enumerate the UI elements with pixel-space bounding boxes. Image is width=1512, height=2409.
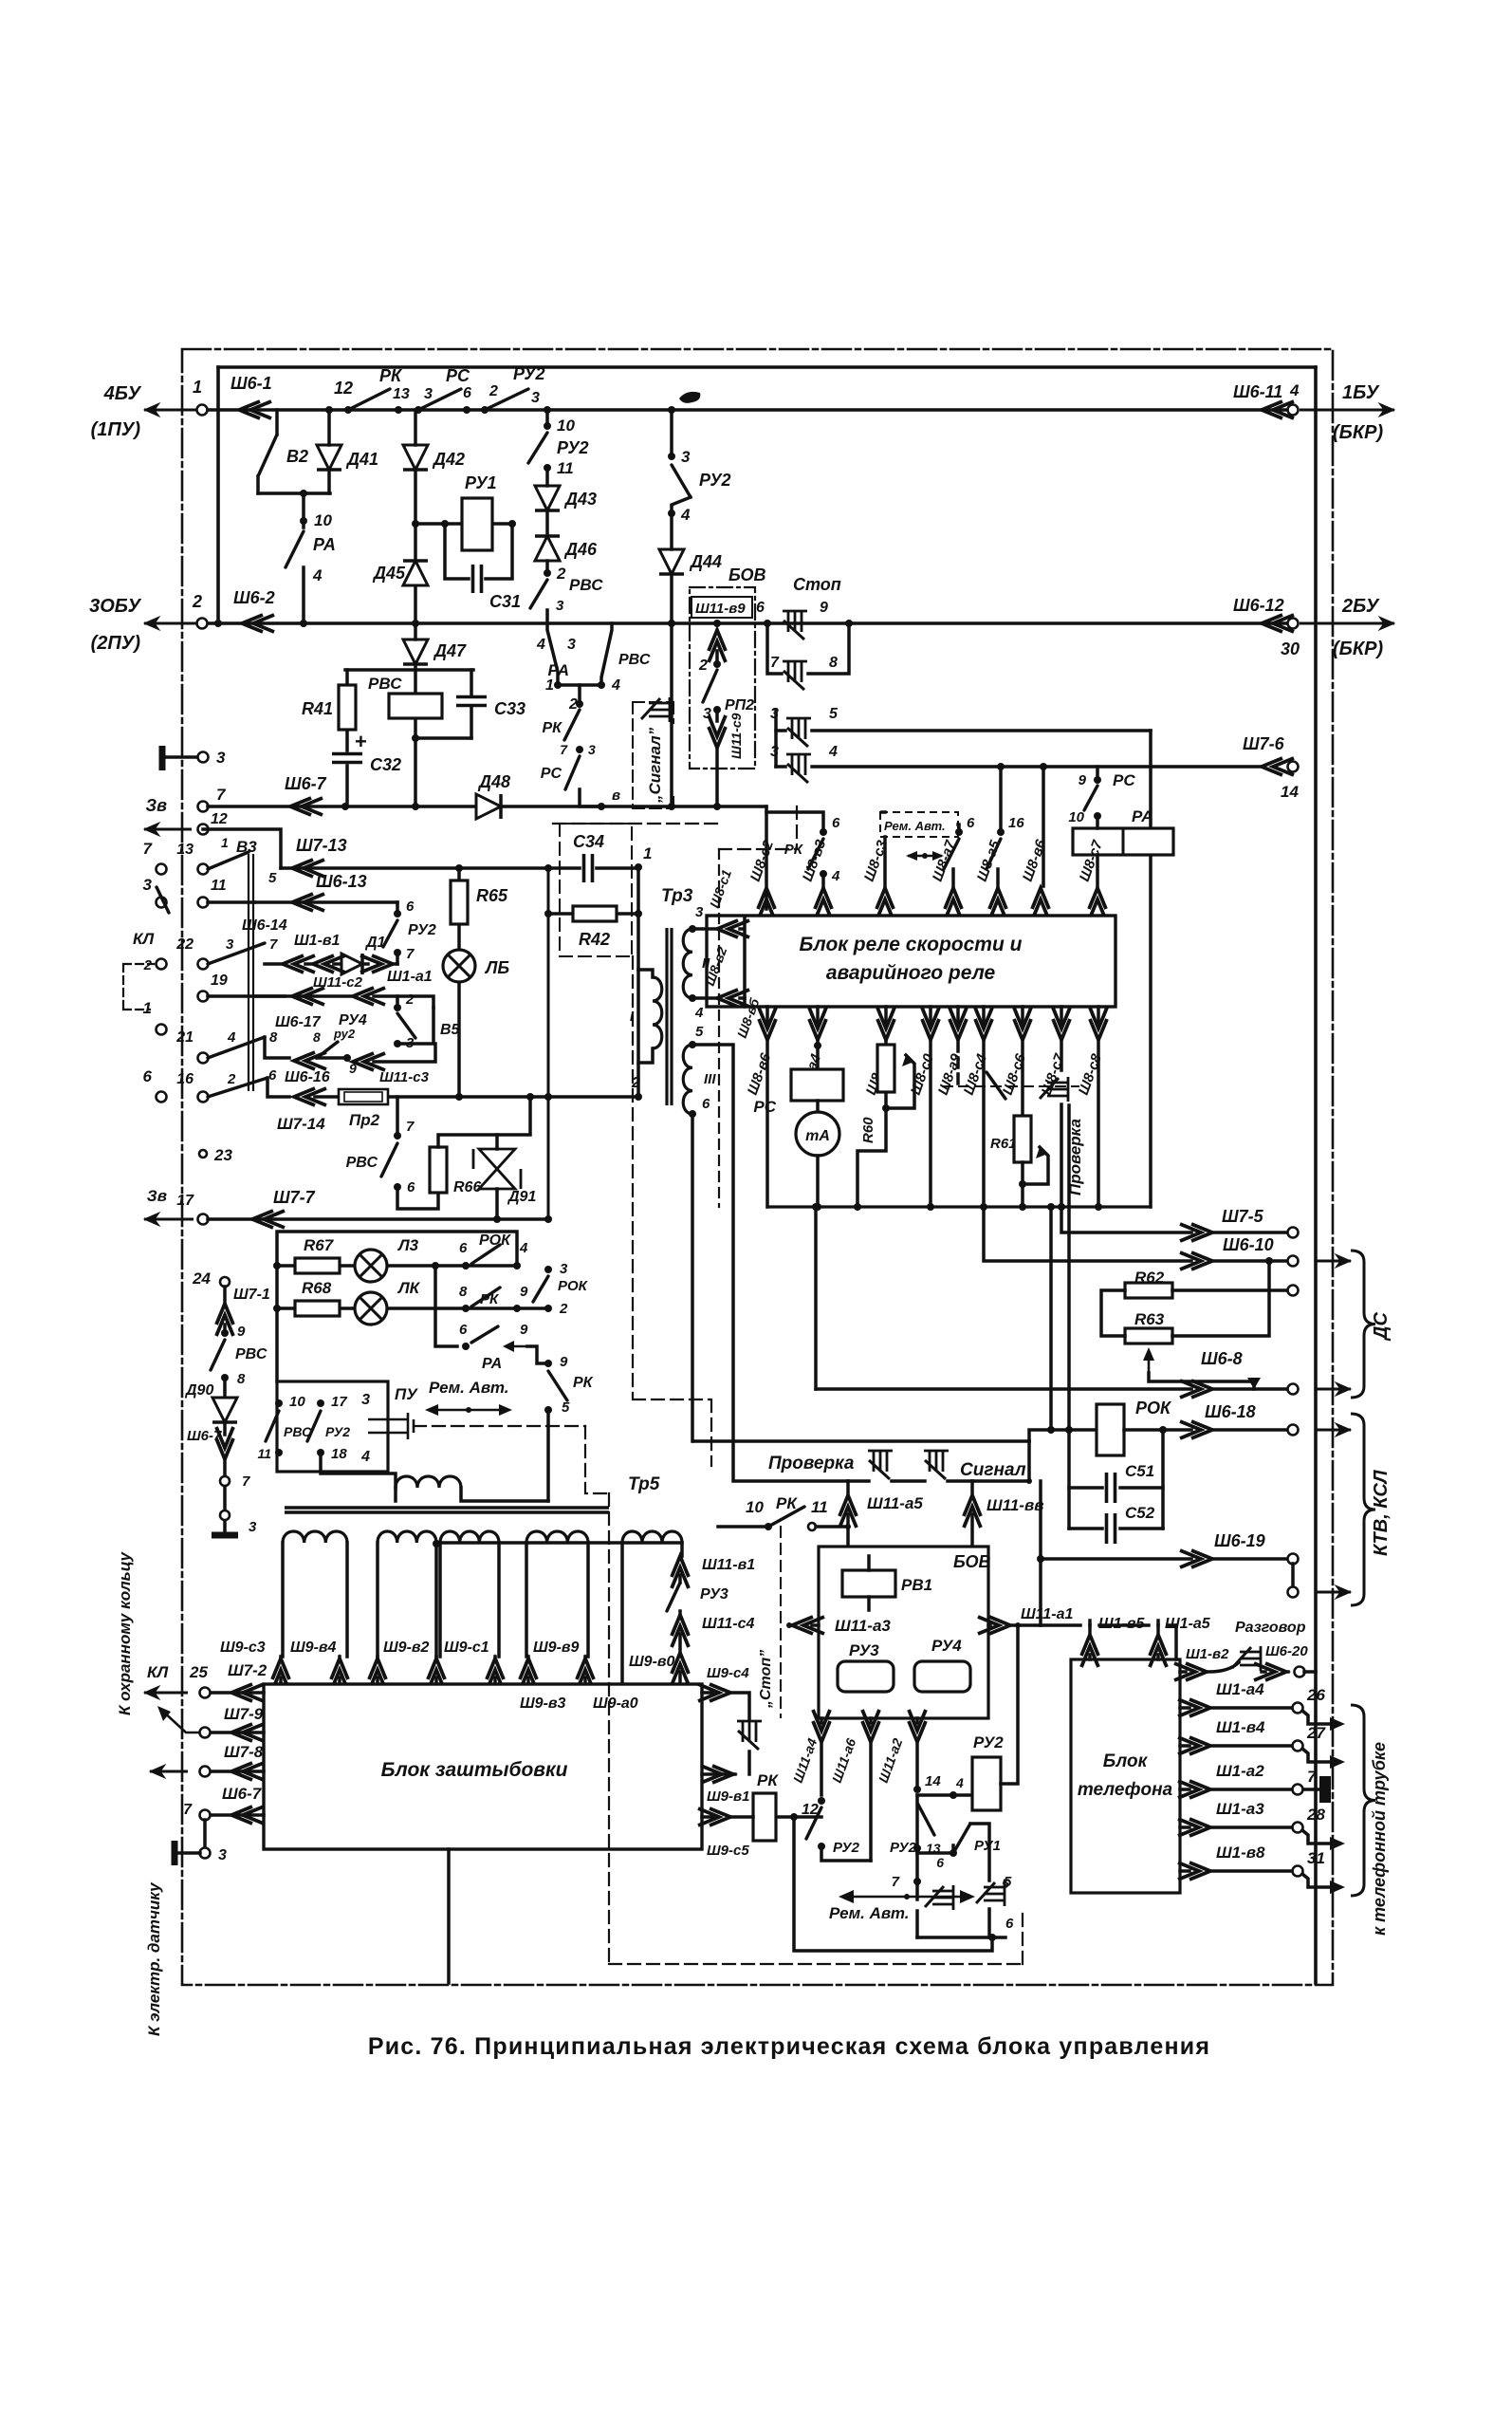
diode Д46 — [535, 536, 560, 561]
wire — [1149, 731, 1152, 1207]
junction — [668, 620, 675, 627]
svg-text:Ш9-с5: Ш9-с5 — [707, 1843, 749, 1859]
connector Ш6-11 — [1262, 401, 1294, 418]
svg-text:РУ2: РУ2 — [408, 922, 436, 938]
push-button Проверка — [1040, 1077, 1068, 1102]
junction — [300, 490, 307, 497]
junction — [1015, 1622, 1021, 1628]
dashed Стоп line — [780, 1527, 782, 1717]
wire — [258, 491, 330, 495]
terminal — [1295, 1667, 1305, 1677]
connector Ш11-а5 — [839, 1495, 857, 1528]
wire — [345, 670, 349, 750]
svg-text:Ш11-в9: Ш11-в9 — [695, 601, 746, 617]
svg-text:РУ4: РУ4 — [931, 1637, 962, 1655]
svg-text:Ш9-в4: Ш9-в4 — [290, 1640, 337, 1656]
switch РА — [286, 531, 304, 567]
svg-text:Ш6-11: Ш6-11 — [1233, 382, 1282, 401]
svg-text:Зв: Зв — [147, 1187, 167, 1205]
svg-text:С31: С31 — [489, 592, 521, 611]
svg-text:Ш11-с9: Ш11-с9 — [728, 713, 744, 759]
connector — [520, 1659, 537, 1691]
connector Ш8-а5 — [989, 888, 1006, 920]
wire winding 2 leads — [378, 1543, 436, 1657]
wire — [846, 1481, 850, 1547]
relay coil РС — [791, 1069, 843, 1101]
svg-text:С33: С33 — [494, 699, 526, 718]
arrow to 1BU — [1300, 409, 1394, 412]
svg-text:R63: R63 — [1134, 1310, 1165, 1328]
wire — [265, 1037, 289, 1058]
svg-text:25: 25 — [189, 1663, 208, 1681]
wire — [1060, 1042, 1063, 1207]
svg-text:Ш7-9: Ш7-9 — [224, 1705, 264, 1723]
svg-text:Рем. Авт.: Рем. Авт. — [884, 819, 946, 833]
junction — [544, 910, 552, 917]
transformer Тр3 core — [667, 928, 672, 1105]
connector Ш6-20 — [1254, 1663, 1286, 1680]
wire — [1214, 1557, 1288, 1561]
wire — [702, 1815, 753, 1819]
svg-text:аварийного реле: аварийного реле — [826, 962, 996, 984]
svg-text:Ш6-17: Ш6-17 — [275, 1014, 322, 1030]
svg-text:2: 2 — [192, 592, 202, 611]
node 13 — [395, 406, 402, 414]
svg-text:3: 3 — [531, 390, 540, 406]
wire — [1172, 1288, 1288, 1292]
wire — [275, 410, 279, 435]
switch РУ2b — [917, 1803, 934, 1835]
node 1 — [635, 863, 642, 871]
wire — [1097, 1042, 1100, 1207]
switch РОК-2 — [533, 1276, 548, 1302]
connector Ш11-в1 — [672, 1556, 689, 1588]
wire — [765, 806, 768, 909]
svg-text:R41: R41 — [302, 699, 333, 718]
svg-text:Ш1-в8: Ш1-в8 — [1216, 1844, 1265, 1862]
wire — [203, 829, 281, 868]
node 6 — [394, 910, 401, 917]
svg-text:тА: тА — [805, 1128, 830, 1144]
wire bottom bus — [767, 1205, 1151, 1208]
svg-text:С51: С51 — [1125, 1462, 1154, 1480]
svg-text:РС: РС — [541, 766, 562, 782]
svg-text:КЛ: КЛ — [133, 930, 154, 948]
junction — [904, 1894, 910, 1899]
connector Ш7-13 — [292, 860, 324, 877]
svg-text:РВС: РВС — [368, 675, 402, 693]
arrow 38 — [144, 1218, 194, 1221]
wire Ш7-9 row — [210, 1731, 264, 1734]
wire — [678, 1575, 682, 1583]
terminal — [1288, 762, 1299, 772]
junction — [845, 1524, 851, 1529]
svg-text:РУ1: РУ1 — [974, 1838, 1001, 1854]
svg-text:R42: R42 — [579, 930, 610, 949]
wire — [223, 1378, 227, 1397]
node 1 — [554, 681, 562, 689]
wire — [545, 410, 549, 423]
wire — [915, 1848, 919, 1881]
wire — [321, 1453, 396, 1488]
wire — [1291, 1564, 1295, 1587]
switch РУ2 — [317, 1042, 338, 1058]
wire vertical A — [547, 868, 550, 1219]
tap arrow — [902, 1055, 912, 1066]
junction — [343, 1054, 351, 1062]
junction — [441, 520, 449, 528]
svg-text:Л3: Л3 — [396, 1236, 419, 1254]
connector Ш1-в2 — [1174, 1663, 1207, 1680]
svg-text:Ш6-14: Ш6-14 — [242, 917, 287, 934]
svg-text:Ш7-8: Ш7-8 — [224, 1743, 264, 1761]
wire — [279, 1657, 283, 1684]
svg-text:7: 7 — [269, 936, 278, 953]
svg-text:3: 3 — [143, 876, 153, 894]
transformer Тр3 winding I — [653, 977, 662, 1048]
junction rail — [214, 620, 222, 627]
svg-text:С52: С52 — [1125, 1504, 1155, 1522]
wire Ш6-13 row — [254, 900, 397, 904]
svg-text:22: 22 — [175, 936, 194, 953]
capacitor С51 — [1107, 1473, 1116, 1503]
connector Ш1-в1 — [313, 955, 345, 973]
node 9 — [221, 1329, 229, 1337]
svg-text:4БУ: 4БУ — [103, 383, 142, 404]
transformer Тр3 winding II — [683, 929, 692, 998]
wire — [882, 810, 885, 814]
svg-text:6: 6 — [832, 815, 840, 831]
terminal 7b — [220, 1476, 230, 1486]
svg-text:6: 6 — [756, 600, 765, 616]
wire — [1096, 816, 1099, 886]
junction — [412, 520, 419, 528]
wire — [1180, 1670, 1186, 1674]
svg-text:R68: R68 — [302, 1279, 332, 1297]
wire — [267, 1078, 289, 1097]
double arrow Рем.Авт. — [844, 1896, 969, 1899]
junction — [412, 803, 419, 810]
svg-text:(1ПУ): (1ПУ) — [91, 419, 141, 440]
switch РК — [564, 710, 580, 740]
wire — [996, 869, 1000, 886]
connector Ш8-а9 — [950, 1008, 967, 1040]
svg-text:10: 10 — [1068, 809, 1084, 825]
svg-text:РОК: РОК — [558, 1278, 589, 1294]
svg-text:3ОБУ: 3ОБУ — [89, 596, 141, 617]
meter mA — [796, 1112, 839, 1156]
wire — [317, 1044, 435, 1062]
svg-text:РК: РК — [480, 1291, 500, 1307]
wire winding 5 lead — [680, 1543, 684, 1556]
wire — [414, 738, 417, 806]
wire — [1041, 1623, 1176, 1627]
svg-text:2: 2 — [227, 1071, 236, 1087]
wire — [203, 1820, 207, 1848]
svg-text:Д41: Д41 — [345, 450, 378, 469]
brace КТВ КСЛ — [1351, 1414, 1375, 1605]
junction — [1265, 1257, 1273, 1265]
svg-text:Д90: Д90 — [184, 1382, 213, 1399]
svg-text:4: 4 — [1289, 381, 1300, 399]
svg-text:Ш1-в2: Ш1-в2 — [1186, 1646, 1229, 1662]
diode Д1 — [341, 954, 362, 974]
wire ЛК row — [277, 1306, 548, 1310]
junction — [713, 803, 721, 810]
contact 3-5 — [786, 718, 811, 747]
wire lamp box — [277, 1232, 517, 1381]
wire — [1180, 1825, 1189, 1829]
wire — [545, 510, 549, 536]
svg-text:Рис. 76. Принципиальная элек: Рис. 76. Принципиальная электрическая сх… — [368, 2033, 1210, 2060]
wire — [1029, 1430, 1097, 1441]
terminal — [1293, 1823, 1303, 1833]
wire — [545, 561, 549, 570]
wire — [917, 1881, 989, 1937]
wire — [718, 1525, 848, 1529]
arrow — [1330, 1755, 1345, 1769]
svg-text:РУ2: РУ2 — [973, 1733, 1004, 1751]
wire — [1180, 1869, 1189, 1873]
switch В3-1 — [208, 852, 249, 869]
connector Ш8-с3 — [876, 888, 894, 920]
junction — [1019, 1203, 1026, 1211]
wire — [1097, 1007, 1100, 1023]
wire — [1304, 1670, 1316, 1674]
wire Ш6-19 row — [1041, 1557, 1191, 1561]
junction — [786, 1622, 792, 1628]
node — [544, 406, 551, 414]
wire — [583, 1657, 587, 1684]
junction — [854, 1203, 861, 1211]
arrow КЛ — [144, 1692, 188, 1695]
wire — [883, 837, 887, 886]
svg-text:3: 3 — [216, 749, 226, 767]
dashed route4 — [553, 806, 797, 849]
switch РУ2-2 — [528, 433, 547, 463]
wire — [816, 1101, 820, 1112]
wire Ш7-8 row — [210, 1770, 264, 1773]
svg-text:телефона: телефона — [1078, 1780, 1173, 1800]
svg-text:7: 7 — [892, 1874, 900, 1890]
terminal — [200, 1767, 211, 1777]
wire winding 3 leads — [440, 1543, 499, 1657]
wire — [580, 789, 601, 806]
switch 16 — [986, 839, 1001, 869]
svg-text:Д43: Д43 — [563, 490, 597, 509]
connector Ш8-с0 — [922, 1008, 939, 1040]
junction — [980, 1203, 987, 1211]
connector Ш7-1 — [216, 1304, 233, 1336]
junction — [466, 1407, 471, 1413]
wire — [397, 1008, 433, 1044]
wire — [457, 868, 461, 1097]
junction — [598, 803, 605, 810]
svg-text:„Сигнал”: „Сигнал” — [646, 727, 664, 804]
svg-text:Ш1-а4: Ш1-а4 — [1216, 1680, 1264, 1698]
push-button Проверка-2 — [868, 1451, 893, 1479]
svg-text:ру2: ру2 — [333, 1027, 356, 1041]
switch РУ2 — [672, 465, 691, 497]
connector block — [1319, 1776, 1331, 1803]
wire — [1124, 1428, 1191, 1432]
node 8 — [221, 1374, 229, 1381]
arrow — [1330, 1717, 1345, 1731]
node 10 — [1094, 812, 1101, 820]
node 4 — [513, 1262, 521, 1269]
node 7 — [913, 1878, 921, 1885]
switch РК — [808, 839, 823, 869]
svg-text:12: 12 — [334, 379, 353, 398]
wire — [670, 410, 673, 456]
svg-text:III: III — [704, 1071, 716, 1087]
svg-text:Тр3: Тр3 — [661, 886, 693, 906]
connector Ш11-а1 — [978, 1617, 1010, 1634]
wire — [1156, 1625, 1160, 1659]
switch РА — [471, 1326, 498, 1343]
node 3 — [689, 925, 696, 933]
wire — [302, 567, 305, 623]
node 13 — [913, 1844, 921, 1852]
wire Ш11-с2 row — [254, 996, 433, 1008]
wire — [702, 1693, 749, 1719]
brace телефонной трубке — [1351, 1705, 1375, 1896]
transformer Тр5 secondary 4 — [526, 1531, 588, 1543]
svg-text:Ш1-а2: Ш1-а2 — [1216, 1762, 1264, 1780]
connector Ш7-6 — [1262, 758, 1294, 775]
svg-text:1: 1 — [221, 835, 229, 850]
node 12 — [325, 406, 333, 414]
wire — [715, 710, 719, 721]
wire — [620, 1543, 624, 1684]
resistor R60 — [877, 1045, 894, 1092]
arrow ДС2 — [1317, 1388, 1351, 1391]
svg-text:7: 7 — [183, 1802, 193, 1818]
svg-text:4: 4 — [828, 744, 838, 760]
wire — [670, 513, 673, 623]
wire — [1180, 1788, 1189, 1791]
switch РВС-2 — [530, 580, 547, 608]
resistor R41 — [339, 685, 356, 730]
wire — [678, 1634, 682, 1653]
terminal — [1288, 1384, 1299, 1395]
switch РУ1 — [953, 1824, 970, 1853]
svg-text:4: 4 — [831, 868, 840, 884]
svg-text:3: 3 — [681, 448, 691, 466]
terminal — [157, 864, 167, 875]
wire — [776, 1815, 821, 1819]
svg-text:(2ПУ): (2ПУ) — [91, 633, 141, 654]
svg-text:РА: РА — [1132, 807, 1153, 825]
svg-text:R67: R67 — [304, 1236, 335, 1254]
wire — [1069, 1527, 1163, 1530]
wire — [917, 1936, 1005, 1939]
switch РУ3 — [667, 1583, 680, 1611]
diode Д42 — [403, 445, 428, 470]
svg-text:7: 7 — [406, 1119, 415, 1135]
switch РВС — [211, 1340, 225, 1370]
svg-text:R66: R66 — [453, 1179, 481, 1195]
svg-text:4: 4 — [360, 1449, 370, 1465]
wire — [816, 1007, 820, 1023]
Сигнал dashed outline — [633, 702, 673, 808]
svg-text:К электр. датчику: К электр. датчику — [145, 1881, 163, 2036]
wire — [767, 623, 849, 674]
wire — [545, 610, 549, 623]
svg-text:Ш6-20: Ш6-20 — [1265, 1643, 1308, 1659]
switch В3-4 — [208, 1078, 267, 1097]
dashed route2 — [633, 956, 711, 1466]
wire Ш6-7 row — [210, 1813, 264, 1817]
connector Ш8-с4 — [975, 1008, 992, 1040]
svg-text:12: 12 — [211, 811, 228, 827]
svg-text:8: 8 — [459, 1284, 468, 1300]
connector — [369, 1659, 386, 1691]
wire — [1212, 1788, 1292, 1791]
wire — [766, 812, 823, 832]
connector Ш6-12 — [1262, 615, 1294, 632]
arrow — [1330, 1837, 1345, 1850]
connector — [428, 1659, 445, 1691]
contact Ш8-с6 — [986, 1072, 1005, 1099]
switch РВС — [381, 1143, 397, 1177]
node 7 — [394, 949, 401, 956]
push-button Стоп3 — [737, 1721, 762, 1750]
svg-text:Рем. Авт.: Рем. Авт. — [429, 1379, 509, 1397]
svg-text:РУ2: РУ2 — [833, 1840, 860, 1856]
junction — [493, 1215, 501, 1223]
resistor R65 — [451, 880, 468, 924]
svg-text:Ш11-вв: Ш11-вв — [986, 1496, 1044, 1514]
junction triangle — [1247, 1378, 1261, 1389]
svg-text:РК: РК — [573, 1375, 594, 1391]
svg-text:1: 1 — [143, 999, 152, 1017]
wire right inner rail — [1314, 367, 1318, 1983]
wire — [1208, 1662, 1239, 1672]
arrow — [1330, 1881, 1345, 1894]
svg-text:Ш9-в9: Ш9-в9 — [533, 1640, 580, 1656]
wire — [1067, 1105, 1071, 1430]
connector — [272, 1659, 289, 1691]
wire — [414, 410, 417, 524]
С34 dashed box — [560, 824, 632, 956]
connector — [292, 988, 324, 1005]
arrow to 3OBU — [144, 622, 197, 625]
wire bus row 2 — [202, 621, 1293, 625]
connector Ш1-а1 — [360, 955, 393, 973]
terminal — [1288, 619, 1299, 629]
svg-text:10: 10 — [314, 511, 332, 529]
svg-text:3: 3 — [770, 744, 779, 760]
svg-text:Ш7-1: Ш7-1 — [233, 1287, 270, 1303]
transformer Тр5 secondary 1 — [283, 1531, 347, 1543]
svg-text:К охранному кольцу: К охранному кольцу — [116, 1550, 134, 1715]
svg-text:С32: С32 — [370, 755, 401, 774]
junction — [713, 620, 721, 627]
wire — [915, 1795, 919, 1848]
svg-text:3: 3 — [588, 742, 596, 757]
svg-text:Ш9-в2: Ш9-в2 — [383, 1640, 430, 1656]
svg-text:Ш6-2: Ш6-2 — [233, 588, 275, 607]
switch РП2 — [703, 670, 717, 702]
svg-text:Д45: Д45 — [372, 564, 406, 583]
wire — [1262, 1670, 1288, 1674]
block Блок заштыбовки — [264, 1684, 702, 1849]
node 2 — [576, 700, 583, 708]
wire — [208, 994, 285, 998]
wire — [821, 1846, 871, 1861]
terminal КЛ — [157, 959, 167, 970]
